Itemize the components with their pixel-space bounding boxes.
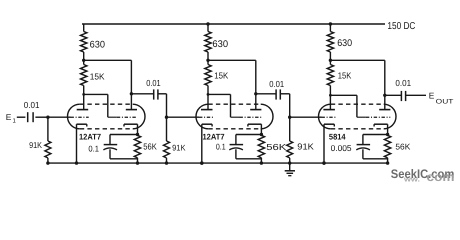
svg-text:15K: 15K xyxy=(90,71,105,81)
svg-text:0.01: 0.01 xyxy=(269,79,284,89)
svg-text:0.01: 0.01 xyxy=(24,100,40,110)
svg-text:15K: 15K xyxy=(214,71,228,81)
svg-text:91K: 91K xyxy=(29,140,42,150)
svg-text:5814: 5814 xyxy=(329,133,346,142)
svg-text:E: E xyxy=(6,112,12,122)
svg-text:630: 630 xyxy=(212,39,228,50)
svg-text:ww.: ww. xyxy=(403,176,420,183)
svg-text:15K: 15K xyxy=(338,70,352,80)
svg-text:56K: 56K xyxy=(143,142,157,152)
svg-text:0.01: 0.01 xyxy=(146,78,161,88)
svg-text:0.1: 0.1 xyxy=(216,141,226,151)
svg-text:0.1: 0.1 xyxy=(88,144,99,154)
svg-text:E: E xyxy=(429,91,435,101)
svg-text:com: com xyxy=(427,170,455,183)
svg-text:56K: 56K xyxy=(266,142,286,152)
svg-text:0.005: 0.005 xyxy=(331,143,352,153)
svg-text:0.01: 0.01 xyxy=(395,78,411,88)
svg-text:91K: 91K xyxy=(172,143,186,152)
svg-text:12AT7: 12AT7 xyxy=(79,132,101,141)
svg-text:630: 630 xyxy=(337,38,352,49)
svg-text:150 DC: 150 DC xyxy=(387,21,415,32)
svg-text:12AT7: 12AT7 xyxy=(203,132,225,141)
svg-text:91K: 91K xyxy=(297,141,314,151)
svg-text:630: 630 xyxy=(90,40,105,51)
svg-text:56K: 56K xyxy=(395,141,410,151)
svg-text:OUT: OUT xyxy=(436,98,454,105)
